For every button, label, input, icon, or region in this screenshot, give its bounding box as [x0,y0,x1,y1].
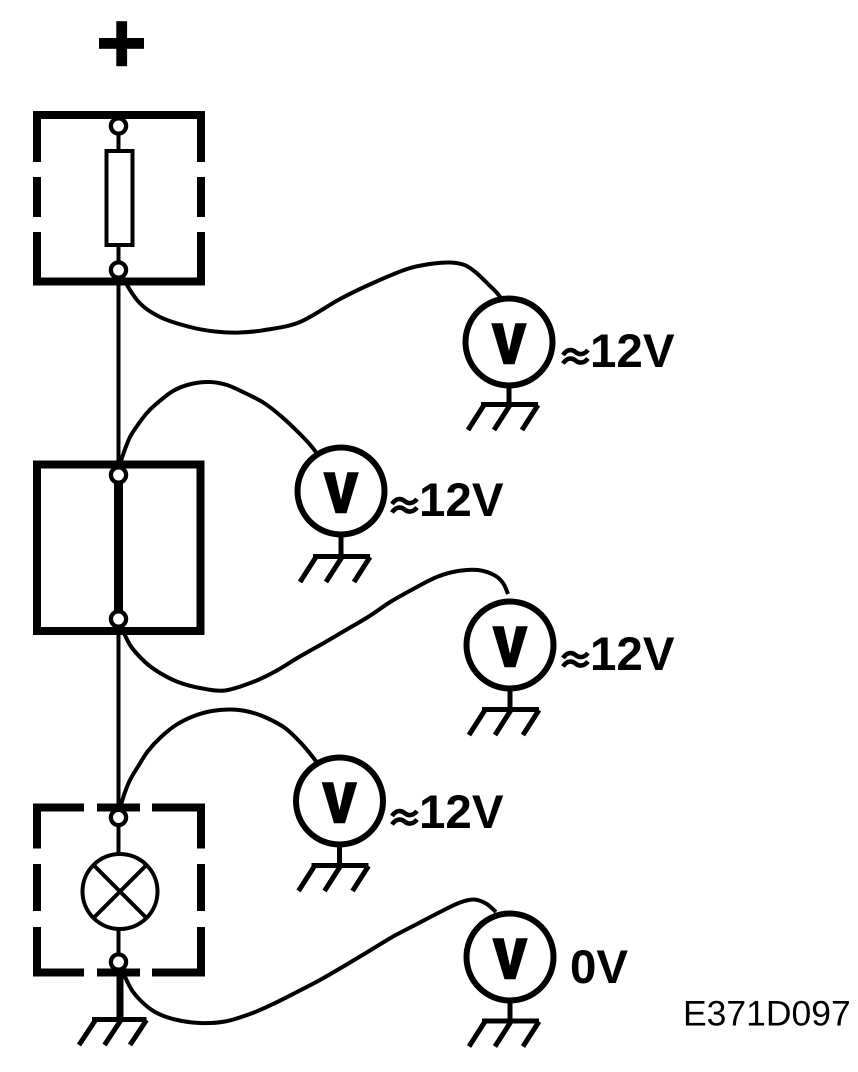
svg-text:0V: 0V [570,941,628,994]
lamp [83,854,158,929]
ground for V2 [300,534,370,582]
box: fuse component (dashed sides, solid top/bottom) [33,111,205,286]
ground for V4 [299,844,369,891]
wire C: switch output to voltmeter V3 [119,570,508,691]
wire A: fuse output to voltmeter V1 [119,262,504,332]
ground for V3 [469,688,539,735]
label approx 12V for V1 [563,350,588,364]
terminal T3 (switch top) [111,467,126,482]
box: switch component (solid) [37,465,201,632]
voltmeter V3 [467,602,554,689]
voltmeter V4 [296,758,383,845]
svg-text:12V: 12V [590,628,675,681]
voltmeter V2 [298,448,385,535]
wire: main vertical bus x=118.5 [117,126,121,1019]
label approx 12V for V2 [392,499,417,513]
svg-text:12V: 12V [419,474,504,527]
switch bar [114,475,123,619]
label approx 12V for V4 [392,811,417,825]
svg-text:12V: 12V [419,786,504,839]
resistor / fuse element [107,151,133,245]
ground for V1 [468,385,538,430]
label approx 12V for V3 [563,653,588,667]
battery plus symbol [99,21,144,66]
voltmeter V5 [467,914,554,1001]
box: lamp component (dashed all sides) [33,804,205,977]
svg-text:12V: 12V [590,325,675,378]
wire E: lamp output to voltmeter V5 [119,899,496,1023]
wire B: switch input to voltmeter V2 [119,382,320,467]
wire D: lamp input to voltmeter V4 [119,709,320,812]
terminal T2 (fuse bottom) [111,262,126,277]
terminal T4 (switch bottom) [111,611,126,626]
terminal T1 (fuse top) [111,118,126,133]
voltmeter V1 [466,299,553,386]
ground: main circuit ground [79,962,147,1045]
svg-text:E371D097: E371D097 [683,994,851,1034]
terminal T5 (lamp top) [111,810,126,825]
ground for V5 [469,1000,539,1047]
terminal T6 (lamp bottom) [111,954,126,969]
